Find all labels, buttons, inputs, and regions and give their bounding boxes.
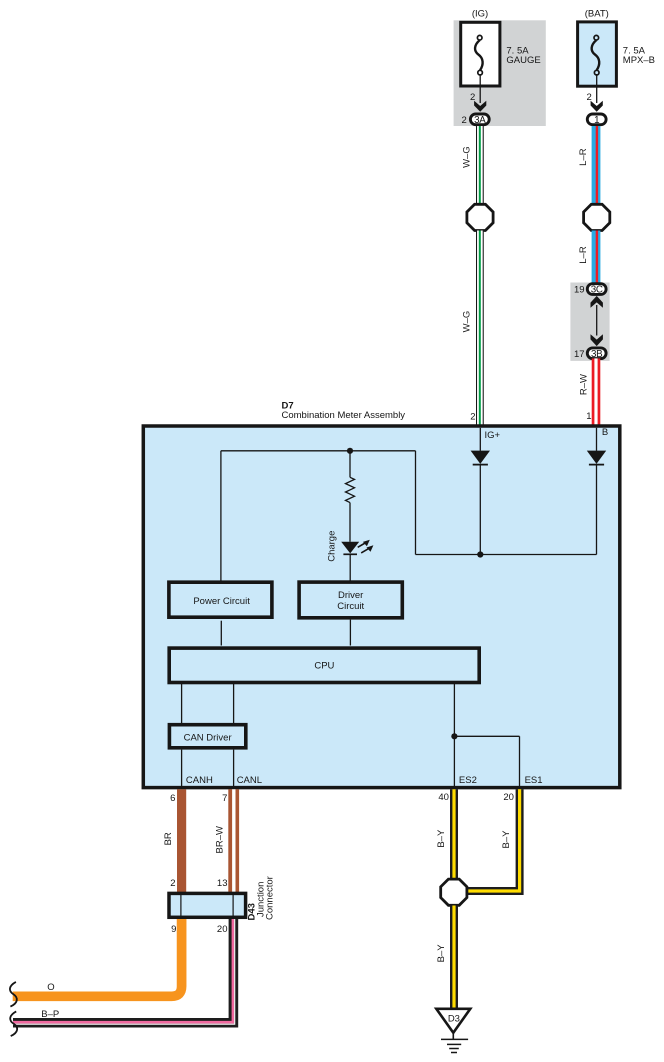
wire CPU to CAN Driver (left) xyxy=(181,683,183,723)
svg-text:ES2: ES2 xyxy=(459,775,477,786)
wire ground stub xyxy=(452,1033,454,1040)
wire right vertical bus link xyxy=(415,451,417,555)
svg-text:CANL: CANL xyxy=(237,775,262,786)
svg-text:W–G: W–G xyxy=(461,311,472,333)
wire to ES1 pin xyxy=(519,736,521,786)
block CAN Driver xyxy=(169,725,245,748)
wire CPU to CAN Driver (right) xyxy=(233,683,235,723)
junction diode bus xyxy=(477,551,483,557)
arrow into connector 1 xyxy=(591,101,603,112)
wire O segment xyxy=(13,919,182,996)
divider (D43 left cavity) xyxy=(180,893,182,917)
svg-text:3C: 3C xyxy=(591,285,603,296)
svg-text:Connector: Connector xyxy=(264,876,275,920)
wire LED to Driver Circuit xyxy=(349,554,351,581)
svg-text:IG+: IG+ xyxy=(485,430,501,441)
wire BR segment xyxy=(177,789,186,892)
block Power Circuit xyxy=(169,582,272,617)
fuse F1 element xyxy=(475,35,483,74)
svg-text:Combination Meter Assembly: Combination Meter Assembly xyxy=(282,410,406,421)
svg-text:MPX–B: MPX–B xyxy=(623,55,655,66)
svg-text:13: 13 xyxy=(217,878,228,889)
svg-text:20: 20 xyxy=(217,924,228,935)
svg-text:Power Circuit: Power Circuit xyxy=(193,596,250,607)
svg-text:Driver: Driver xyxy=(338,590,363,601)
wire W-G lower segment xyxy=(476,231,484,425)
wire CAN Driver to CANL pin xyxy=(233,750,235,786)
svg-text:ES1: ES1 xyxy=(525,775,543,786)
wire top horizontal bus xyxy=(221,450,416,452)
wire Power Circuit to CPU xyxy=(220,621,222,646)
wire resistor to LED xyxy=(349,503,351,542)
wire between 3C and 3B xyxy=(596,305,598,336)
LED charge lamp xyxy=(341,540,373,555)
resistor R1 xyxy=(346,477,355,502)
diode D-B (anode from B) xyxy=(587,451,606,465)
svg-text:CAN Driver: CAN Driver xyxy=(184,732,232,743)
svg-text:BR: BR xyxy=(163,832,174,845)
wire Driver Circuit to CPU xyxy=(349,620,351,646)
wire B-P segment xyxy=(13,919,235,1024)
component D43 junction connector box xyxy=(169,893,246,917)
block CPU xyxy=(169,648,479,682)
connector octagon (B-Y junction) xyxy=(441,879,467,905)
svg-text:2: 2 xyxy=(462,115,467,126)
component D7 Combination Meter Assembly box xyxy=(143,426,620,788)
svg-text:GAUGE: GAUGE xyxy=(506,55,540,66)
svg-text:1: 1 xyxy=(586,411,591,422)
svg-text:(IG): (IG) xyxy=(472,8,488,19)
svg-text:D3: D3 xyxy=(448,1014,460,1025)
fuse F1 7.5A GAUGE body xyxy=(461,22,500,86)
diode D-IG (anode from IG+) xyxy=(471,451,490,465)
connector octagon (L-R) xyxy=(584,204,610,230)
wire IG+ diode to bus xyxy=(479,465,481,555)
junction ES branch xyxy=(451,733,457,739)
svg-text:40: 40 xyxy=(438,792,449,803)
gray fuse panel (IG) xyxy=(454,20,546,126)
svg-text:O: O xyxy=(47,982,54,993)
svg-text:19: 19 xyxy=(574,285,585,296)
wire B-Y (ES2 to octagon) xyxy=(450,789,458,879)
wire ES branch horizontal xyxy=(454,735,519,737)
fuse F2 7.5A MPX-B body xyxy=(578,22,617,86)
wire lower horizontal bus xyxy=(416,554,597,556)
svg-text:3B: 3B xyxy=(591,349,603,360)
pin B entry wire xyxy=(596,428,598,451)
svg-text:B–Y: B–Y xyxy=(501,830,512,849)
svg-text:6: 6 xyxy=(170,793,175,804)
svg-text:7: 7 xyxy=(222,793,227,804)
connector 3A xyxy=(470,114,489,125)
connector 3B xyxy=(587,348,606,359)
arrow down (to 3B) xyxy=(591,334,603,346)
break symbol (O wire) xyxy=(10,982,17,1007)
svg-text:B–Y: B–Y xyxy=(436,829,447,848)
svg-text:3A: 3A xyxy=(474,115,486,126)
wire L-R upper segment xyxy=(592,126,601,205)
svg-text:9: 9 xyxy=(171,924,176,935)
wire to resistor xyxy=(349,451,351,478)
wire BR-W segment xyxy=(228,789,239,892)
ground D3 triangle xyxy=(436,1009,470,1033)
connector octagon (W-G) xyxy=(467,204,493,230)
fuse F2 element xyxy=(592,35,600,74)
svg-text:BR–W: BR–W xyxy=(215,826,226,853)
arrow up (to 3C) xyxy=(591,296,603,308)
svg-text:B–Y: B–Y xyxy=(436,944,447,963)
wire left vertical to Power Circuit xyxy=(220,451,222,581)
svg-text:20: 20 xyxy=(503,792,514,803)
wire L-R lower segment xyxy=(592,231,601,284)
divider (D43 right cavity) xyxy=(232,893,234,917)
wire fuse F1 output xyxy=(479,75,481,103)
break symbol (B-P wire) xyxy=(10,1011,17,1036)
wire CAN Driver to CANH pin xyxy=(181,750,183,786)
junction resistor tap xyxy=(347,448,353,454)
wire CPU to ES2 pin xyxy=(453,683,455,786)
connector 3C xyxy=(587,284,606,295)
svg-text:1: 1 xyxy=(594,115,599,126)
wire W-G upper segment xyxy=(476,126,484,205)
connector 1 xyxy=(587,114,606,125)
arrow into connector 3A xyxy=(474,101,486,112)
svg-text:W–G: W–G xyxy=(461,146,472,168)
svg-text:B–P: B–P xyxy=(41,1009,59,1020)
wire R-W segment xyxy=(592,358,601,424)
wire B-Y (ES1 down and left) xyxy=(467,789,520,891)
wire B diode to bus xyxy=(596,465,598,555)
svg-text:2: 2 xyxy=(170,878,175,889)
svg-text:2: 2 xyxy=(470,412,475,423)
svg-text:L–R: L–R xyxy=(578,246,589,264)
pin IG+ entry wire xyxy=(479,428,481,451)
wire B-Y (octagon to ground) xyxy=(450,906,458,1010)
svg-text:CANH: CANH xyxy=(186,775,213,786)
svg-text:(BAT): (BAT) xyxy=(585,8,609,19)
svg-text:CPU: CPU xyxy=(314,661,334,672)
svg-text:B: B xyxy=(602,427,608,438)
gray panel (3C/3B connectors) xyxy=(570,283,609,361)
ground symbol xyxy=(441,1039,468,1052)
svg-text:L–R: L–R xyxy=(578,148,589,166)
wire fuse F2 output xyxy=(596,75,598,103)
block Driver Circuit xyxy=(299,582,402,618)
svg-text:R–W: R–W xyxy=(578,374,589,395)
svg-text:Circuit: Circuit xyxy=(337,601,364,612)
svg-text:Charge: Charge xyxy=(327,531,338,562)
svg-text:17: 17 xyxy=(574,349,585,360)
